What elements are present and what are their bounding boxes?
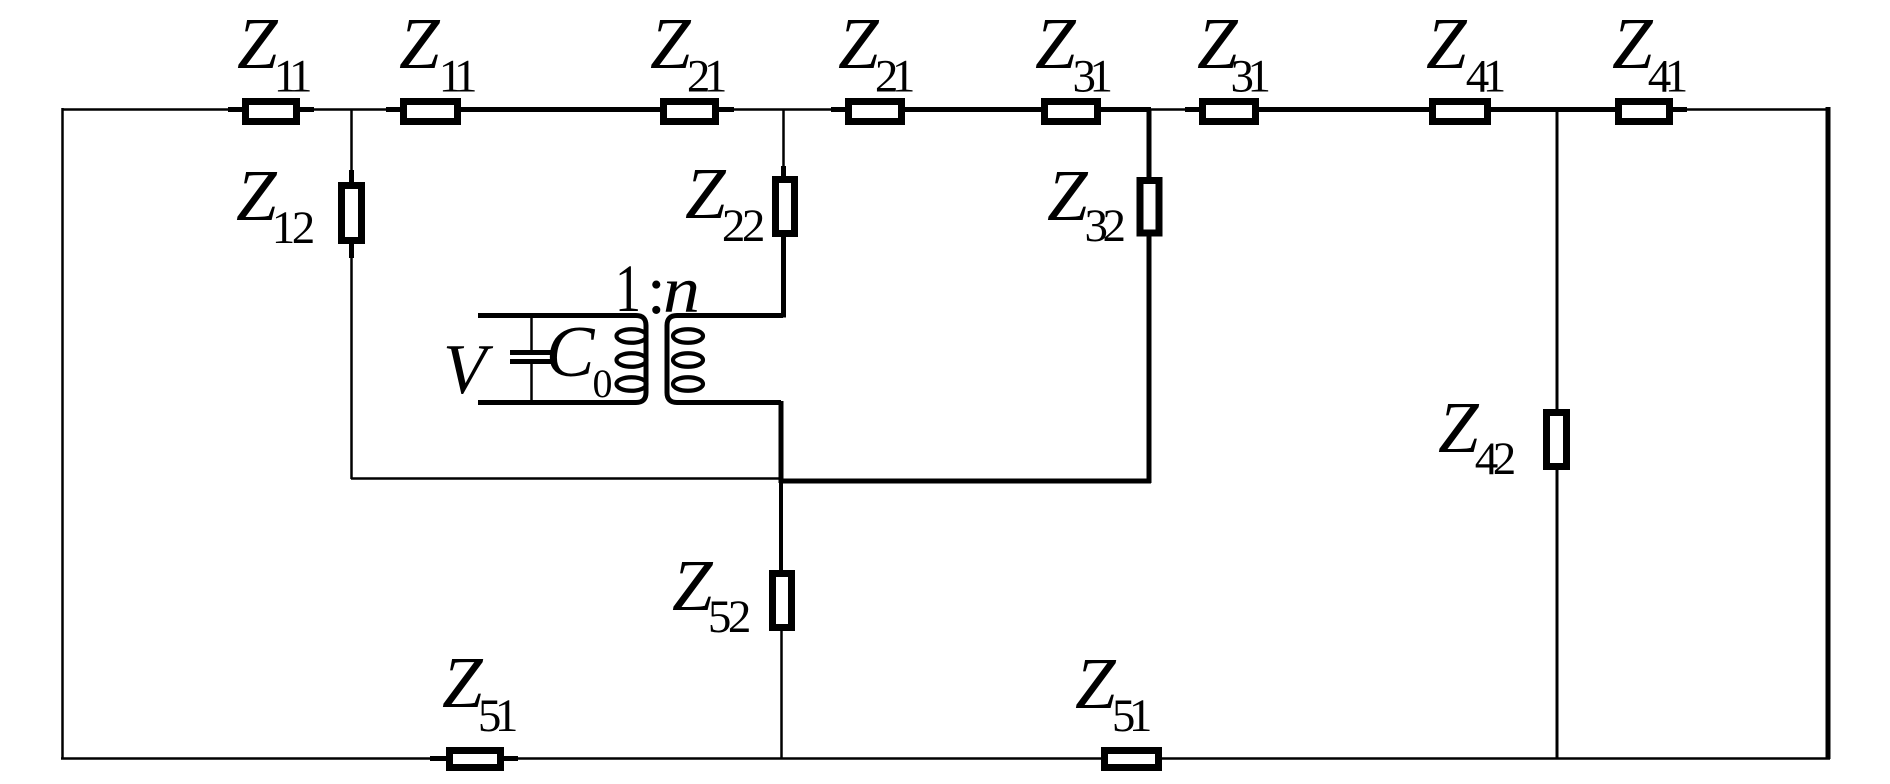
wire: top rail Z31b-Z41a thick (1259, 107, 1429, 112)
svg-text:51: 51 (478, 690, 516, 742)
resistor Z21a (664, 102, 716, 122)
wire: Z22 to transformer secondary top (thick) (781, 235, 786, 318)
wire: transformer secondary bottom corner vertical (779, 401, 784, 483)
wire: top rail Z21a-Z21b thin (730, 108, 834, 111)
wire: top rail junction-Z31b thin (1149, 108, 1199, 111)
resistor Z11a lead (228, 107, 314, 112)
wire: bottom rail (61, 757, 1830, 760)
resistor Z21b (849, 102, 902, 122)
resistor Z32 (1140, 181, 1159, 234)
svg-text:Z: Z (650, 3, 692, 84)
capacitor C0 top plate (510, 350, 551, 355)
svg-text:41: 41 (1466, 51, 1504, 103)
resistor Z51a lead (430, 756, 518, 761)
resistor Z11b lead (386, 107, 475, 112)
wire: mid horizontal line thin left part (351, 477, 781, 480)
svg-text:V: V (443, 331, 494, 409)
svg-text:Z: Z (1047, 155, 1089, 236)
transformer primary winding loop 1 (617, 329, 647, 343)
capacitor C0 bottom plate (510, 359, 551, 364)
svg-text:42: 42 (1475, 433, 1514, 485)
wire: Z52 branch lower thin (780, 629, 783, 759)
wire: top rail right of Z41b thin (1673, 108, 1829, 111)
capacitor C0 bottom wire (530, 364, 533, 404)
svg-text:Z: Z (1035, 3, 1077, 84)
resistor Z31b (1203, 102, 1256, 122)
svg-text:Z: Z (237, 3, 279, 84)
transformer primary winding loop 3 (617, 377, 647, 391)
svg-text:0: 0 (593, 361, 613, 406)
wire: top rail Z21b-Z31a thick (905, 107, 1041, 112)
svg-text:Z: Z (399, 3, 441, 84)
transformer secondary winding loop 3 (673, 377, 703, 391)
transformer primary winding loop 2 (617, 353, 647, 367)
svg-text:C: C (546, 311, 596, 392)
svg-text:21: 21 (687, 51, 725, 103)
resistor Z41a (1433, 102, 1488, 122)
resistor Z41b lead (1601, 107, 1687, 112)
wire: Z22 top lead stub (781, 166, 786, 178)
svg-text:32: 32 (1085, 200, 1124, 252)
svg-text:22: 22 (722, 200, 763, 252)
transformer primary outline (478, 316, 646, 403)
svg-text:Z: Z (1426, 3, 1468, 84)
resistor Z41a lead (1415, 107, 1505, 112)
resistor Z51a (450, 751, 501, 768)
wire: top rail Z11b-Z21a thick (461, 107, 660, 112)
resistor Z31b lead (1185, 107, 1273, 112)
resistor Z51b (1105, 751, 1159, 768)
resistor Z52 (773, 574, 792, 628)
wire: Z52 branch upper stub (779, 481, 783, 572)
svg-text:n: n (663, 254, 700, 327)
resistor Z21a lead (646, 107, 734, 112)
svg-text:Z: Z (838, 3, 880, 84)
wire: top rail Z31a-junction thick (1101, 107, 1151, 112)
resistor Z22 (776, 180, 795, 234)
transformer secondary winding loop 2 (673, 353, 703, 367)
resistor Z11b (404, 102, 458, 122)
resistor Z12 (342, 186, 362, 241)
svg-text:11: 11 (439, 51, 475, 103)
svg-text:31: 31 (1231, 51, 1269, 103)
node D: Z42 branch vertical (1556, 109, 1559, 758)
svg-text:31: 31 (1073, 51, 1111, 103)
capacitor C0 top wire (530, 314, 533, 350)
wire: Z12 top lead stub (349, 170, 354, 184)
transformer secondary outline (667, 316, 783, 403)
resistor Z21b lead (831, 107, 919, 112)
resistor Z42 (1547, 413, 1567, 467)
resistor Z41b (1619, 102, 1670, 122)
node B: Z22 branch vertical thin upper (782, 109, 785, 178)
resistor Z31a lead (1027, 107, 1115, 112)
svg-text:52: 52 (708, 591, 749, 643)
wire: top rail segment left of Z11a (62, 108, 240, 111)
wire: right edge (1826, 107, 1831, 759)
svg-text:12: 12 (272, 202, 313, 254)
wire: top rail Z41a-Z41b thick (1491, 107, 1615, 112)
transformer secondary winding loop 1 (673, 329, 703, 343)
svg-text:Z: Z (685, 153, 727, 234)
wire: left edge (61, 108, 64, 759)
resistor Z31a (1045, 102, 1098, 122)
svg-text:1: 1 (615, 250, 641, 326)
resistor Z11a (246, 102, 297, 122)
node A: Z12 branch vertical (350, 109, 353, 479)
wire: mid horizontal line thick right part (779, 479, 1151, 484)
node C: Z32 branch vertical thick (1147, 109, 1152, 483)
svg-text:Z: Z (1075, 643, 1117, 724)
svg-text:21: 21 (875, 51, 913, 103)
svg-text:Z: Z (1438, 387, 1480, 468)
svg-text:51: 51 (1112, 690, 1150, 742)
svg-text:11: 11 (274, 51, 310, 103)
svg-text:41: 41 (1648, 51, 1686, 103)
wire: Z12 bottom lead stub (349, 242, 354, 258)
wire: top rail Z11a-Z11b thin (310, 108, 390, 111)
